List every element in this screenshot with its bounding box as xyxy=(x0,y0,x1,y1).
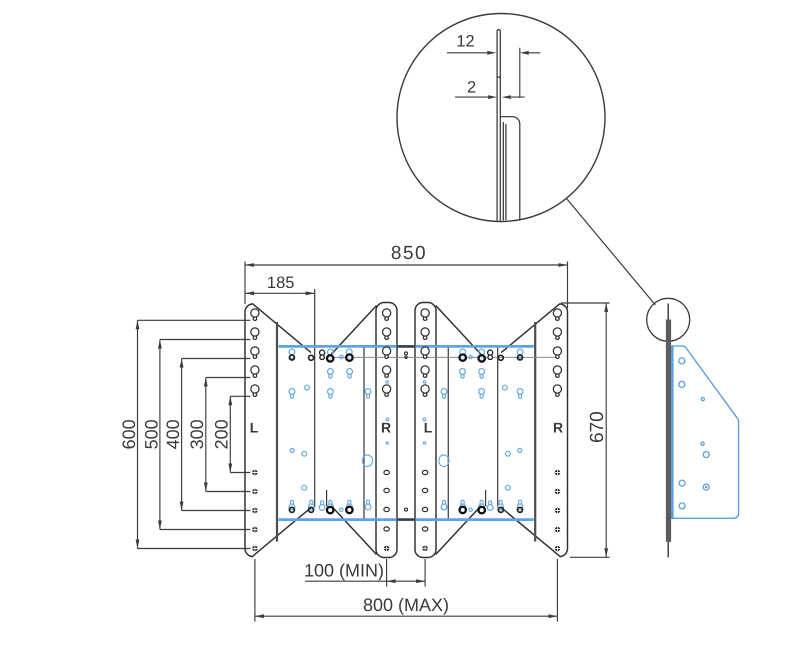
phantom rail edge left-center xyxy=(363,347,365,520)
svg-text:L: L xyxy=(424,420,433,436)
blue tiny dots xyxy=(386,381,426,444)
dim 400 lines xyxy=(182,359,251,511)
blue keyholes row 2 xyxy=(328,369,485,379)
rail 2 (middle-left rail R) xyxy=(376,303,397,558)
svg-text:12: 12 xyxy=(456,32,474,50)
dim 500 lines xyxy=(160,340,251,530)
blue wall plate bottom edge xyxy=(279,518,534,521)
center pin holes between middle rails xyxy=(405,352,408,511)
rail 4 screw holes xyxy=(555,470,560,551)
bowtie plate diagonals right bracket bottom xyxy=(436,506,560,556)
phantom waist stub right xyxy=(485,490,487,507)
detail circle boundary xyxy=(397,14,605,222)
rail 3 bottom screw hole xyxy=(422,546,427,551)
hook rings bottom row xyxy=(289,507,522,514)
side view blue profile thick left edge xyxy=(671,346,674,518)
rail 4 keyholes xyxy=(553,309,561,397)
hook keyhole top center-left xyxy=(320,350,325,359)
bowtie plate diagonals left bracket bottom xyxy=(253,506,377,556)
rail 1 screw holes xyxy=(252,470,257,551)
phantom column left outer edge xyxy=(276,322,278,542)
svg-text:200: 200 xyxy=(211,419,231,449)
phantom column right outer edge xyxy=(534,322,536,542)
svg-text:850: 850 xyxy=(391,243,427,264)
wall plate cross-section xyxy=(497,30,500,221)
dim 185 lines xyxy=(245,292,315,294)
side view wall rail edge xyxy=(667,304,669,558)
hook rings top row xyxy=(289,354,522,361)
svg-text:L: L xyxy=(250,420,259,436)
dim 100 MIN lines xyxy=(305,559,425,587)
rail 1 (left wall rail L) xyxy=(245,304,253,557)
dim arrowheads xyxy=(136,263,608,618)
phantom column right inner edge xyxy=(497,347,499,508)
rail 3 keyholes xyxy=(421,309,429,397)
side view blue holes xyxy=(679,358,709,509)
dim 670 lines xyxy=(561,303,610,557)
hook keyhole top center-right xyxy=(488,350,493,359)
dim 600 lines xyxy=(138,320,251,548)
phantom waist stub left xyxy=(326,490,328,507)
detail target circle on side view xyxy=(647,298,690,341)
dim 800 MAX lines xyxy=(255,559,558,622)
svg-text:100 (MIN): 100 (MIN) xyxy=(304,561,384,581)
rail 4 (right wall rail R) xyxy=(559,304,567,557)
phantom rail edge right-center xyxy=(447,347,449,520)
svg-text:R: R xyxy=(553,420,563,436)
bowtie plate diagonals right bracket top xyxy=(436,304,560,354)
dim 850 lines xyxy=(245,262,568,309)
rail 2 oval holes xyxy=(384,470,389,531)
svg-text:400: 400 xyxy=(163,419,183,449)
blue large blobs mid-lower xyxy=(363,455,449,467)
blue wall plate top edge xyxy=(279,345,534,348)
dim 200 lines xyxy=(230,396,250,472)
rail 3 (middle-right rail L) xyxy=(415,303,436,558)
hidden edge gray line xyxy=(331,356,556,358)
svg-text:670: 670 xyxy=(587,411,608,443)
bracket profile cross-section xyxy=(500,117,520,221)
dim 300 lines xyxy=(206,378,251,492)
blue keyholes row 3 xyxy=(289,389,523,399)
side view bracket plate bar xyxy=(666,320,671,542)
svg-text:R: R xyxy=(381,420,391,436)
rail 1 keyholes xyxy=(251,309,259,397)
svg-text:185: 185 xyxy=(267,274,295,292)
svg-text:800 (MAX): 800 (MAX) xyxy=(363,595,449,615)
leader line xyxy=(567,199,656,305)
blue keyholes upper row xyxy=(289,349,523,359)
dark overlay segment bottom between middle rails xyxy=(397,518,416,520)
dark overlay segment top between middle rails xyxy=(397,345,416,347)
svg-text:300: 300 xyxy=(187,419,207,449)
phantom column left inner edge / 185 extension xyxy=(314,289,316,508)
dimension 12 xyxy=(447,48,540,98)
svg-text:600: 600 xyxy=(119,419,139,449)
rail 2 keyholes xyxy=(383,309,391,397)
svg-text:2: 2 xyxy=(467,79,476,97)
side view blue TV profile xyxy=(672,346,739,518)
dimension 2 xyxy=(455,96,525,98)
rail 3 oval holes xyxy=(422,470,427,531)
blue small circles xyxy=(290,355,522,511)
blue keyholes bottom rows (inverted) xyxy=(289,500,523,510)
svg-text:500: 500 xyxy=(141,419,161,449)
bowtie plate diagonals left bracket top xyxy=(253,304,377,354)
blue keyholes bottom center xyxy=(319,501,493,511)
rail 2 bottom screw hole xyxy=(384,546,389,551)
